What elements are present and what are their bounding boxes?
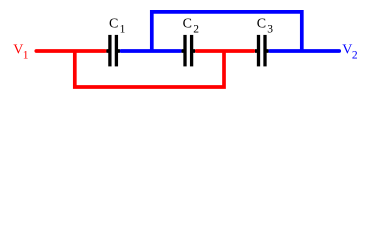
node V2 label	[342, 43, 358, 62]
wire: blue output wire from C3 to V2	[270, 49, 339, 53]
wire: blue top rail branch (node between C1-C2 to node after C3)	[152, 12, 302, 51]
capacitor C2	[182, 17, 200, 67]
node V1 label	[13, 43, 29, 62]
svg-text:V: V	[13, 43, 23, 58]
svg-text:C: C	[109, 17, 118, 32]
wire: red bottom rail branch (node V1 to node between C2-C3)	[75, 51, 224, 87]
svg-text:2: 2	[352, 49, 358, 61]
wire: red input wire from V1 to C1	[36, 49, 105, 53]
svg-text:3: 3	[267, 23, 273, 35]
capacitor C3	[255, 17, 273, 67]
svg-text:C: C	[257, 17, 266, 32]
svg-text:1: 1	[23, 49, 29, 61]
svg-text:1: 1	[120, 23, 126, 35]
svg-text:C: C	[183, 17, 192, 32]
svg-text:2: 2	[193, 23, 199, 35]
wire: blue segment between C1 and C2	[121, 49, 180, 53]
wire: red segment between C2 and C3	[196, 49, 253, 53]
capacitor C1	[106, 17, 125, 67]
